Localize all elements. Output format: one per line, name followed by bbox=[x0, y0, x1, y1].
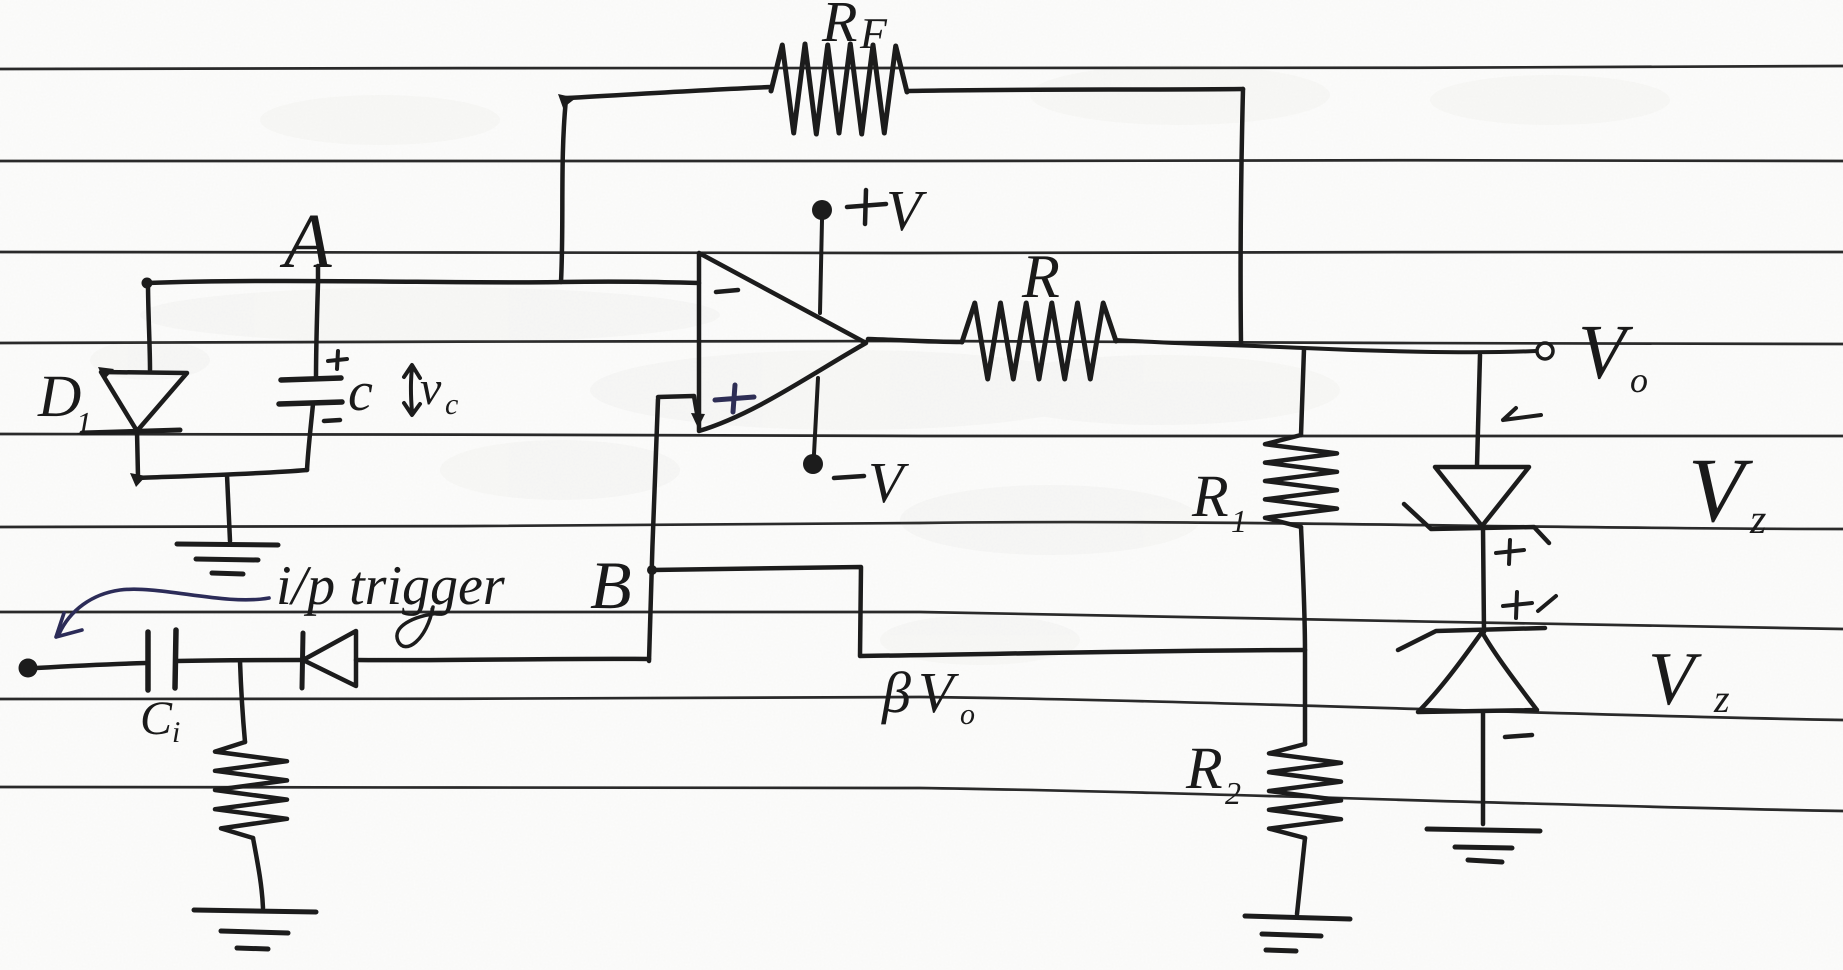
resistor R2 bbox=[1269, 744, 1341, 838]
wire: beta Vo feedback from node B bbox=[652, 567, 1305, 656]
capacitor C minus polarity mark bbox=[324, 420, 340, 421]
capacitor C plus polarity mark bbox=[328, 351, 347, 369]
label RF bbox=[821, 0, 888, 58]
ground symbol G1 bbox=[177, 544, 278, 574]
zener Z2 plus mark with tick bbox=[1503, 592, 1556, 618]
wire: R1 to R2 vertical bbox=[1301, 527, 1305, 744]
diode D1 cathode bar bbox=[82, 430, 180, 433]
svg-text:1: 1 bbox=[1231, 503, 1247, 539]
wire: feedback top left lead bbox=[566, 87, 771, 98]
zener Z1 plus mark bbox=[1496, 540, 1524, 564]
output terminal open circle bbox=[1537, 343, 1553, 359]
label Ci bbox=[140, 692, 180, 749]
wire: D1 cathode lead down bbox=[137, 431, 138, 477]
zener Z1 triangle (pointing down) bbox=[1435, 467, 1529, 526]
wire: op-amp output lead bbox=[868, 339, 962, 342]
wire: zener branch vertical from output bbox=[1477, 355, 1480, 466]
capacitor C bottom plate bbox=[279, 402, 342, 404]
diode D1 triangle bbox=[101, 372, 187, 431]
diode D1 anode serif blob bbox=[98, 367, 114, 380]
svg-text:β: β bbox=[881, 660, 911, 725]
label Vo bbox=[1578, 308, 1648, 400]
label R2 bbox=[1185, 735, 1241, 811]
label Vz lower bbox=[1648, 637, 1730, 721]
vc double arrow bbox=[404, 365, 420, 415]
wire: R2 bottom lead bbox=[1297, 838, 1305, 914]
wire: trigger resistor bottom lead bbox=[253, 838, 263, 908]
svg-text:1: 1 bbox=[76, 405, 92, 441]
svg-text:B: B bbox=[590, 547, 632, 623]
wire: capacitor C bottom lead bbox=[307, 404, 313, 470]
trigger annotation arrow (blue ink) bbox=[59, 589, 269, 634]
wire: R1 top lead bbox=[1301, 349, 1304, 435]
svg-text:z: z bbox=[1749, 497, 1766, 543]
zener Z1 cathode bar with bent ends bbox=[1404, 504, 1549, 543]
ground symbol G4 bbox=[1427, 829, 1540, 862]
wire: feedback right vertical down to output node bbox=[1241, 89, 1243, 344]
op-amp U1 inverting mark bbox=[716, 290, 738, 292]
label +V bbox=[847, 178, 928, 243]
op-amp U1 triangle bbox=[699, 253, 866, 431]
resistor R1 bbox=[1265, 435, 1337, 527]
svg-text:R: R bbox=[1185, 735, 1223, 801]
svg-text:C: C bbox=[140, 692, 173, 745]
svg-text:V: V bbox=[1578, 308, 1634, 395]
wire: -V lead bbox=[814, 378, 818, 454]
label beta Vo bbox=[881, 660, 975, 731]
label Vz upper bbox=[1688, 439, 1766, 543]
svg-text:i: i bbox=[172, 716, 180, 749]
resistor Ri (trigger input) bbox=[215, 742, 287, 838]
label R1 bbox=[1191, 463, 1247, 539]
wire: node B vertical up to op-amp plus input bbox=[649, 399, 658, 661]
junction corner blob at feedback corner bbox=[558, 94, 576, 108]
capacitor Ci left plate bbox=[145, 632, 151, 690]
wire: trigger resistor top lead bbox=[240, 661, 245, 742]
input terminal dot bbox=[19, 659, 38, 678]
svg-text:V: V bbox=[1648, 637, 1702, 721]
small minus tick near zener top bbox=[1503, 408, 1541, 420]
capacitor C top plate bbox=[281, 378, 341, 380]
wire: inverting input run from node A area to op-amp bbox=[147, 281, 699, 283]
supply +V terminal dot bbox=[812, 200, 832, 220]
zener minus mark bottom bbox=[1505, 735, 1532, 737]
diode D2 trigger steering triangle bbox=[303, 631, 356, 686]
wire: +V lead bbox=[820, 220, 822, 313]
svg-text:R: R bbox=[1191, 463, 1229, 529]
wire: bottom horizontal D1 to C bbox=[137, 470, 307, 478]
svg-text:2: 2 bbox=[1225, 775, 1241, 811]
resistor R bbox=[962, 303, 1116, 379]
svg-text:i/p trigger: i/p trigger bbox=[276, 555, 505, 617]
junction blob bottom left bbox=[130, 473, 146, 487]
wire: plus input horizontal bbox=[658, 396, 698, 419]
wire: zener bottom lead bbox=[1481, 712, 1486, 824]
label -V bbox=[834, 450, 910, 515]
label D1 bbox=[37, 363, 92, 441]
supply -V terminal dot bbox=[803, 454, 823, 474]
wire: between zeners bbox=[1483, 528, 1484, 632]
capacitor Ci right plate bbox=[175, 630, 176, 688]
svg-text:z: z bbox=[1713, 676, 1730, 721]
diode D2 trigger steering cathode bar bbox=[302, 633, 303, 688]
node A junction dot bbox=[142, 278, 153, 289]
wire: feedback top right lead bbox=[907, 89, 1243, 91]
node B junction dot bbox=[647, 565, 657, 575]
svg-text:o: o bbox=[1630, 360, 1648, 400]
svg-text:o: o bbox=[960, 698, 975, 731]
ground symbol G3 bbox=[1245, 916, 1350, 951]
svg-text:V: V bbox=[1688, 439, 1754, 541]
wire: trigger diode to node B vertical bbox=[356, 659, 649, 660]
wire: output run to Vo bbox=[1116, 340, 1536, 352]
wire: input terminal to Ci bbox=[36, 663, 146, 668]
wire: D1 anode vertical from node A wire bbox=[148, 283, 150, 370]
zener Z2 triangle (pointing up) bbox=[1418, 632, 1537, 712]
svg-text:A: A bbox=[279, 197, 332, 284]
ground symbol G2 bbox=[194, 910, 316, 949]
zener Z2 bar with bent end bbox=[1398, 628, 1545, 650]
wire: ground stub below D1-C wire bbox=[227, 475, 230, 541]
svg-text:D: D bbox=[37, 363, 81, 429]
svg-text:c: c bbox=[348, 361, 373, 423]
wire: Ci to trigger diode bbox=[177, 660, 301, 661]
resistor RF bbox=[771, 44, 907, 134]
wire: capacitor C top lead bbox=[316, 266, 318, 378]
wire: feedback left vertical down to inverting input wire bbox=[561, 99, 566, 282]
svg-text:c: c bbox=[445, 388, 458, 421]
svg-text:v: v bbox=[420, 362, 442, 415]
label vc bbox=[420, 362, 458, 421]
op-amp U1 non-inverting mark bbox=[715, 385, 754, 412]
